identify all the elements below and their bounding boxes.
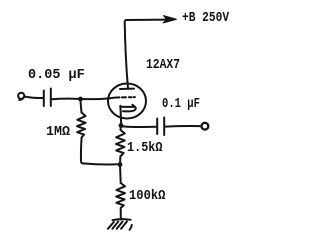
resistor R2 1.5k lead top <box>120 126 123 131</box>
input terminal tail <box>19 97 24 100</box>
resistor R2 1.5k zigzag <box>116 130 125 156</box>
label 1Mohm <box>46 125 70 139</box>
tube grid dashes <box>115 96 135 99</box>
resistor R3 100k lead top <box>119 165 122 184</box>
wire: plate lead to corner <box>125 20 128 84</box>
resistor R3 lead bottom <box>120 208 122 220</box>
tube plate bar <box>120 88 134 90</box>
label 1.5kohm <box>127 141 163 155</box>
label 12AX7 <box>146 58 180 72</box>
arrowhead B+ <box>163 16 176 23</box>
tube 12AX7 envelope U1 <box>108 84 146 119</box>
ground hatch 3 <box>117 222 123 229</box>
label 0.05uF <box>28 68 85 82</box>
wire: C1 to grid node <box>52 98 81 101</box>
label 0.1uF <box>162 97 200 111</box>
resistor R1 1M lead top <box>81 101 82 113</box>
label 100kohm <box>129 189 165 203</box>
wire: B+ horizontal <box>126 19 167 21</box>
input terminal J1 <box>18 93 24 99</box>
wire: grid node to tube grid <box>81 98 114 99</box>
tube cathode <box>120 105 136 112</box>
resistor R2 lead bottom <box>119 156 121 164</box>
label +B 250V <box>182 11 229 25</box>
ground hatch 2 <box>112 222 118 229</box>
output terminal J2 <box>202 123 209 130</box>
ground bar <box>113 219 131 220</box>
node: cathode junction dot <box>119 123 124 128</box>
cathode lead <box>119 106 122 125</box>
capacitor C2 0.1uF left plate <box>156 119 158 135</box>
wire: C2 to output terminal <box>165 125 201 128</box>
ground hatch 4 <box>121 222 127 229</box>
ground comma <box>130 225 132 230</box>
ground hatch 1 <box>108 222 114 229</box>
capacitor C1 0.05uF left plate <box>43 91 45 107</box>
capacitor C1 0.05uF right plate <box>50 89 52 107</box>
wire: input terminal to C1 <box>24 97 43 99</box>
wire: cathode junction to C2 <box>121 125 157 128</box>
node: bottom junction dot <box>118 162 123 167</box>
wire: R1 bottom to cathode bottom node <box>83 163 120 164</box>
node: grid junction dot <box>78 97 83 102</box>
tube plate lead inside <box>127 84 129 89</box>
resistor R1 1M lead bottom <box>81 138 84 164</box>
capacitor C2 0.1uF right plate <box>163 118 165 136</box>
resistor R1 1M zigzag <box>77 113 86 138</box>
resistor R3 100k zigzag <box>116 183 125 208</box>
